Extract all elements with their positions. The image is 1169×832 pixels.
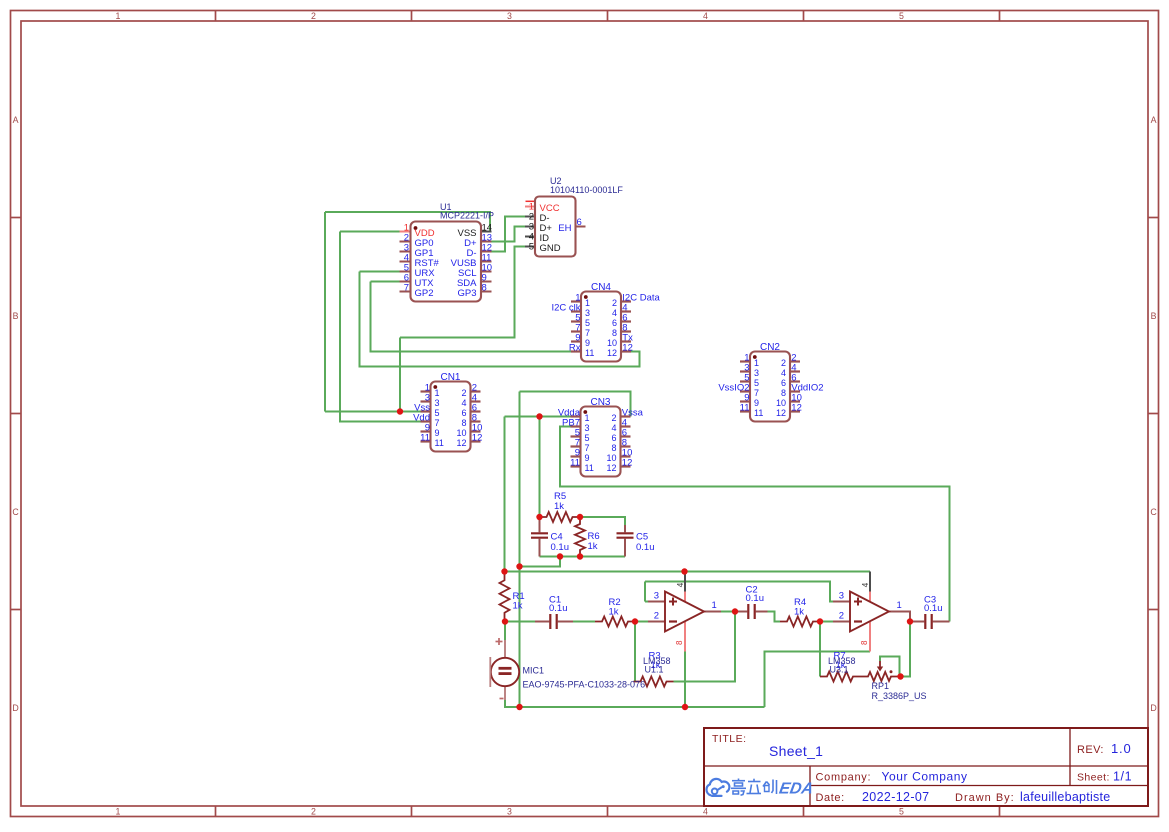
wire bbox=[360, 272, 640, 367]
svg-text:11: 11 bbox=[585, 463, 594, 473]
svg-text:1k: 1k bbox=[513, 601, 523, 612]
wire bbox=[324, 212, 326, 412]
svg-text:Company:: Company: bbox=[816, 772, 872, 784]
svg-text:1.0: 1.0 bbox=[1111, 741, 1131, 756]
svg-text:1k: 1k bbox=[794, 607, 804, 618]
capacitor C5 bbox=[617, 525, 655, 557]
svg-text:Sheet_1: Sheet_1 bbox=[769, 743, 823, 759]
wire bbox=[491, 217, 525, 252]
svg-text:EDA: EDA bbox=[778, 780, 815, 798]
svg-text:Sheet:: Sheet: bbox=[1077, 772, 1110, 784]
svg-text:4: 4 bbox=[703, 807, 708, 817]
svg-text:12: 12 bbox=[622, 342, 633, 353]
junction bbox=[682, 704, 688, 710]
svg-text:10104110-0001LF: 10104110-0001LF bbox=[550, 185, 623, 195]
wire bbox=[520, 392, 631, 417]
capacitor C4 bbox=[531, 517, 569, 557]
svg-text:lafeuillebaptiste: lafeuillebaptiste bbox=[1020, 790, 1110, 804]
svg-text:Your Company: Your Company bbox=[882, 770, 968, 784]
svg-text:6: 6 bbox=[577, 217, 582, 228]
svg-text:Drawn By:: Drawn By: bbox=[955, 792, 1015, 804]
svg-text:0.1u: 0.1u bbox=[924, 603, 943, 614]
svg-text:0.1u: 0.1u bbox=[746, 593, 765, 604]
svg-text:2: 2 bbox=[611, 413, 616, 423]
svg-text:3: 3 bbox=[507, 807, 512, 817]
svg-text:GP3: GP3 bbox=[457, 288, 476, 299]
svg-text:MCP2221-I/P: MCP2221-I/P bbox=[440, 211, 494, 221]
svg-text:2: 2 bbox=[839, 610, 844, 621]
wire bbox=[505, 700, 765, 707]
svg-text:5: 5 bbox=[585, 433, 590, 443]
svg-text:D: D bbox=[1150, 703, 1156, 713]
svg-text:11: 11 bbox=[570, 457, 580, 468]
svg-text:5: 5 bbox=[754, 378, 759, 388]
svg-text:3: 3 bbox=[585, 423, 590, 433]
svg-text:10: 10 bbox=[606, 453, 616, 463]
svg-text:1: 1 bbox=[116, 807, 121, 817]
connector CN4 bbox=[551, 282, 660, 361]
svg-text:12: 12 bbox=[622, 457, 633, 468]
svg-text:7: 7 bbox=[435, 418, 440, 428]
svg-text:I2C Data: I2C Data bbox=[622, 292, 660, 303]
wire bbox=[635, 621, 648, 623]
wire bbox=[340, 231, 400, 233]
wire bbox=[505, 621, 535, 623]
svg-text:Rx: Rx bbox=[569, 342, 581, 353]
svg-text:8: 8 bbox=[781, 388, 786, 398]
svg-text:6: 6 bbox=[461, 408, 466, 418]
svg-text:4: 4 bbox=[861, 582, 870, 587]
junction bbox=[502, 618, 508, 624]
svg-text:7: 7 bbox=[585, 443, 590, 453]
svg-text:1: 1 bbox=[116, 11, 121, 21]
capacitor C3 bbox=[910, 595, 950, 630]
op-amp U1.1 LM358 bbox=[643, 572, 721, 675]
potentiometer RP1 R_3386P_US bbox=[860, 661, 927, 701]
svg-text:4: 4 bbox=[676, 582, 685, 587]
resistor R2 bbox=[595, 597, 635, 627]
wire bbox=[820, 621, 834, 623]
junction bbox=[397, 408, 403, 414]
junction bbox=[536, 514, 542, 520]
svg-text:U1.1: U1.1 bbox=[645, 665, 664, 675]
resistor R1 bbox=[500, 572, 525, 622]
svg-text:1k: 1k bbox=[588, 541, 598, 552]
wire bbox=[880, 657, 900, 676]
svg-text:3: 3 bbox=[839, 590, 844, 601]
svg-text:EH: EH bbox=[558, 223, 571, 234]
wire bbox=[505, 571, 871, 573]
svg-text:10: 10 bbox=[456, 428, 466, 438]
svg-text:0.1u: 0.1u bbox=[636, 542, 655, 553]
junction bbox=[897, 673, 903, 679]
svg-text:U3.1: U3.1 bbox=[830, 665, 849, 675]
svg-text:6: 6 bbox=[612, 318, 617, 328]
svg-text:9: 9 bbox=[435, 428, 440, 438]
svg-text:9: 9 bbox=[754, 398, 759, 408]
wire bbox=[674, 612, 736, 682]
svg-text:2: 2 bbox=[612, 298, 617, 308]
svg-text:12: 12 bbox=[606, 463, 616, 473]
wire bbox=[560, 427, 950, 622]
junction bbox=[632, 618, 638, 624]
svg-text:2: 2 bbox=[781, 358, 786, 368]
svg-text:5: 5 bbox=[899, 807, 904, 817]
svg-text:4: 4 bbox=[703, 11, 708, 21]
junction bbox=[817, 618, 823, 624]
svg-text:11: 11 bbox=[585, 348, 594, 358]
svg-text:1/1: 1/1 bbox=[1113, 770, 1132, 784]
svg-text:0.1u: 0.1u bbox=[549, 603, 568, 614]
svg-text:10: 10 bbox=[607, 338, 617, 348]
svg-text:GND: GND bbox=[540, 243, 561, 254]
svg-text:CN4: CN4 bbox=[591, 282, 611, 293]
wire bbox=[819, 622, 821, 677]
svg-text:8: 8 bbox=[461, 418, 466, 428]
svg-text:8: 8 bbox=[860, 640, 869, 645]
wire bbox=[765, 652, 871, 708]
svg-text:4: 4 bbox=[781, 368, 786, 378]
svg-text:5: 5 bbox=[435, 408, 440, 418]
svg-text:TITLE:: TITLE: bbox=[712, 733, 747, 745]
svg-text:4: 4 bbox=[461, 398, 466, 408]
wire bbox=[573, 621, 595, 623]
svg-text:R_3386P_US: R_3386P_US bbox=[872, 691, 927, 701]
svg-text:GP2: GP2 bbox=[415, 288, 434, 299]
junction bbox=[577, 514, 583, 520]
svg-text:1: 1 bbox=[435, 388, 440, 398]
wire bbox=[634, 622, 636, 682]
resistor R5 bbox=[540, 491, 580, 522]
svg-text:CN2: CN2 bbox=[760, 342, 780, 353]
svg-text:Date:: Date: bbox=[816, 792, 845, 804]
svg-text:1: 1 bbox=[897, 600, 902, 611]
svg-text:B: B bbox=[1151, 311, 1157, 321]
wire bbox=[519, 392, 521, 708]
resistor R7 bbox=[820, 651, 860, 682]
junction bbox=[516, 704, 522, 710]
svg-text:1: 1 bbox=[585, 298, 590, 308]
svg-text:MIC1: MIC1 bbox=[523, 666, 545, 676]
junction bbox=[732, 608, 738, 614]
svg-text:11: 11 bbox=[740, 402, 750, 413]
wire bbox=[399, 338, 401, 412]
wire bbox=[400, 247, 525, 338]
resistor R3 bbox=[634, 651, 674, 687]
svg-text:11: 11 bbox=[420, 432, 430, 443]
logo JLC EDA bbox=[707, 779, 815, 798]
svg-text:CN1: CN1 bbox=[440, 372, 460, 383]
connector CN1 bbox=[413, 372, 482, 451]
svg-text:A: A bbox=[13, 115, 19, 125]
svg-text:7: 7 bbox=[404, 282, 409, 293]
svg-text:A: A bbox=[1151, 115, 1157, 125]
svg-text:2: 2 bbox=[461, 388, 466, 398]
wire bbox=[540, 556, 626, 558]
capacitor C1 bbox=[535, 595, 573, 630]
junction bbox=[516, 563, 522, 569]
junction bbox=[501, 568, 507, 574]
svg-text:1k: 1k bbox=[554, 501, 564, 512]
svg-text:2: 2 bbox=[311, 11, 316, 21]
svg-text:7: 7 bbox=[585, 328, 590, 338]
wire bbox=[371, 281, 400, 283]
svg-text:1k: 1k bbox=[609, 607, 619, 618]
op-amp U3.1 LM358 bbox=[828, 572, 910, 675]
svg-text:RP1: RP1 bbox=[872, 681, 890, 691]
wire bbox=[505, 416, 578, 418]
wire bbox=[768, 612, 781, 622]
svg-text:1: 1 bbox=[754, 358, 759, 368]
svg-text:C: C bbox=[1150, 507, 1157, 517]
svg-text:2: 2 bbox=[311, 807, 316, 817]
junction bbox=[557, 553, 563, 559]
wire bbox=[539, 417, 541, 518]
svg-text:3: 3 bbox=[507, 11, 512, 21]
svg-text:12: 12 bbox=[472, 432, 483, 443]
junction bbox=[907, 618, 913, 624]
svg-text:4: 4 bbox=[611, 423, 616, 433]
svg-text:12: 12 bbox=[791, 402, 802, 413]
connector CN3 bbox=[558, 397, 644, 476]
svg-text:3: 3 bbox=[585, 308, 590, 318]
svg-text:B: B bbox=[13, 311, 19, 321]
wire bbox=[325, 212, 490, 232]
svg-text:3: 3 bbox=[435, 398, 440, 408]
svg-text:5: 5 bbox=[899, 11, 904, 21]
IC U2 10104110-0001LF bbox=[525, 176, 623, 257]
title block bbox=[704, 728, 1148, 806]
wire bbox=[340, 232, 425, 422]
resistor R6 bbox=[575, 517, 600, 557]
wire bbox=[325, 411, 425, 413]
svg-text:C: C bbox=[12, 507, 19, 517]
svg-text:11: 11 bbox=[754, 408, 763, 418]
svg-text:C5: C5 bbox=[636, 532, 648, 543]
connector CN2 bbox=[718, 342, 823, 421]
svg-text:12: 12 bbox=[456, 438, 466, 448]
svg-text:7: 7 bbox=[754, 388, 759, 398]
svg-text:CN3: CN3 bbox=[590, 397, 610, 408]
svg-text:1: 1 bbox=[585, 413, 590, 423]
capacitor C2 bbox=[735, 585, 768, 620]
resistor R4 bbox=[780, 597, 820, 627]
svg-text:3: 3 bbox=[654, 590, 659, 601]
wire bbox=[684, 652, 686, 708]
wire bbox=[491, 227, 525, 242]
wire bbox=[645, 582, 834, 602]
svg-text:10: 10 bbox=[776, 398, 786, 408]
svg-text:C4: C4 bbox=[551, 532, 563, 543]
svg-text:D: D bbox=[12, 703, 18, 713]
svg-text:12: 12 bbox=[776, 408, 786, 418]
svg-text:5: 5 bbox=[529, 242, 534, 253]
svg-text:2022-12-07: 2022-12-07 bbox=[862, 790, 929, 804]
svg-text:0.1u: 0.1u bbox=[551, 542, 570, 553]
junction bbox=[536, 413, 542, 419]
wire bbox=[580, 517, 625, 525]
svg-text:3: 3 bbox=[754, 368, 759, 378]
wire bbox=[645, 601, 664, 603]
svg-text:8: 8 bbox=[611, 443, 616, 453]
svg-text:9: 9 bbox=[585, 338, 590, 348]
wire bbox=[371, 282, 572, 352]
svg-text:6: 6 bbox=[611, 433, 616, 443]
wire bbox=[901, 622, 911, 677]
svg-text:5: 5 bbox=[585, 318, 590, 328]
junction bbox=[577, 553, 583, 559]
svg-text:8: 8 bbox=[482, 282, 487, 293]
microphone MIC1 bbox=[490, 622, 645, 701]
svg-text:4: 4 bbox=[612, 308, 617, 318]
svg-text:9: 9 bbox=[585, 453, 590, 463]
svg-text:2: 2 bbox=[654, 610, 659, 621]
wire bbox=[360, 271, 400, 273]
svg-text:12: 12 bbox=[607, 348, 617, 358]
svg-text:8: 8 bbox=[675, 640, 684, 645]
svg-text:8: 8 bbox=[612, 328, 617, 338]
svg-text:11: 11 bbox=[435, 438, 444, 448]
wire bbox=[721, 611, 735, 613]
svg-text:EAO-9745-PFA-C1033-28-076: EAO-9745-PFA-C1033-28-076 bbox=[523, 680, 646, 690]
wire bbox=[504, 417, 506, 572]
junction bbox=[681, 568, 687, 574]
svg-text:1: 1 bbox=[712, 600, 717, 611]
svg-text:6: 6 bbox=[781, 378, 786, 388]
IC U1 MCP2221-I/P bbox=[400, 202, 495, 302]
wire bbox=[644, 582, 646, 602]
svg-text:REV:: REV: bbox=[1077, 744, 1104, 756]
wire bbox=[520, 557, 561, 567]
